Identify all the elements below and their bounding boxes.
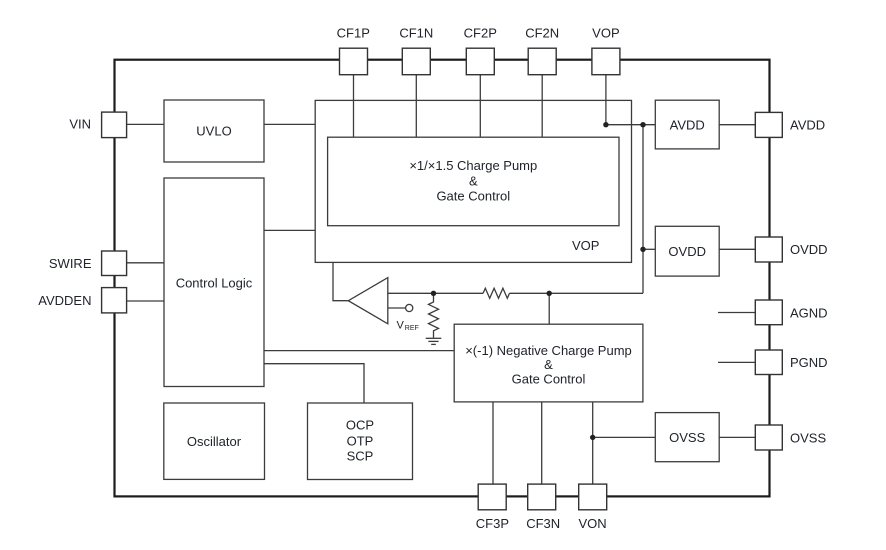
block: x1/x1.5 charge pump outer (VOP domain) <box>315 100 631 262</box>
block: OVDD regulator <box>655 226 719 276</box>
svg-text:AVDDEN: AVDDEN <box>38 293 91 308</box>
svg-text:VON: VON <box>579 516 607 531</box>
svg-text:×1/×1.5 Charge Pump: ×1/×1.5 Charge Pump <box>409 158 537 173</box>
wire: resistor to rail corner <box>510 292 644 294</box>
pin CF3N <box>528 484 556 510</box>
wire: charge pump block to comparator input <box>333 262 348 300</box>
wire: VON stub <box>592 402 594 484</box>
node: rail top junction <box>640 122 645 127</box>
block: Control Logic <box>164 178 264 387</box>
svg-text:Control Logic: Control Logic <box>176 276 253 291</box>
pin AVDDEN <box>102 288 127 313</box>
wire: AVDDEN to Control Logic <box>127 300 164 302</box>
svg-text:OVDD: OVDD <box>668 244 706 259</box>
svg-text:&: & <box>544 357 553 372</box>
wire: VREF input line <box>388 307 406 309</box>
pin SWIRE <box>102 251 127 276</box>
pin AGND <box>755 300 782 325</box>
wire: Control Logic to negative charge pump <box>264 350 454 352</box>
pin PGND <box>755 350 782 375</box>
node: VOP stub junction <box>603 122 608 127</box>
wire: VOP vertical feedback rail <box>642 125 644 294</box>
svg-text:CF2N: CF2N <box>525 26 559 41</box>
pin VOP <box>592 48 620 74</box>
svg-text:V: V <box>397 320 405 332</box>
pin CF2N <box>528 48 556 74</box>
terminal circle: VREF <box>406 304 413 311</box>
node: comparator feedback junction <box>431 291 436 296</box>
pin OVDD <box>755 237 782 262</box>
block: OCP OTP SCP <box>308 403 413 480</box>
node: rail OVDD junction <box>640 247 645 252</box>
svg-text:Gate Control: Gate Control <box>512 372 586 387</box>
pin CF3P <box>478 484 506 510</box>
wire: rail tap to OVDD block <box>643 248 655 250</box>
wire: AGND pin stub <box>718 312 755 314</box>
block U1: x1/x1.5 Charge Pump & Gate Control inner <box>328 137 619 226</box>
pin OVSS <box>755 425 782 450</box>
block: AVDD regulator <box>655 100 719 149</box>
resistor R1 (horizontal) <box>483 288 509 298</box>
block: OVSS regulator <box>655 413 719 462</box>
wire: CF2P stub <box>479 75 481 138</box>
wire: CF3P stub <box>492 402 494 484</box>
block: UVLO <box>164 100 264 162</box>
wire: VIN to UVLO <box>127 123 164 125</box>
svg-text:CF1N: CF1N <box>399 26 433 41</box>
svg-text:CF3P: CF3P <box>476 516 509 531</box>
chip outer boundary <box>115 60 770 497</box>
svg-text:PGND: PGND <box>790 355 828 370</box>
wire: VON node to OVSS block <box>593 436 656 438</box>
ground <box>426 338 442 344</box>
pin CF1N <box>402 48 430 74</box>
svg-text:VIN: VIN <box>69 117 91 132</box>
svg-text:×(-1) Negative Charge Pump: ×(-1) Negative Charge Pump <box>465 343 632 358</box>
wire: CF1P stub <box>353 75 355 138</box>
wire: OVDD block to OVDD pin <box>719 248 755 250</box>
svg-text:OVSS: OVSS <box>669 430 705 445</box>
svg-text:Gate Control: Gate Control <box>436 189 510 204</box>
wire: Control Logic to OCP/OTP/SCP <box>264 364 364 403</box>
svg-text:AGND: AGND <box>790 305 828 320</box>
svg-text:SCP: SCP <box>347 449 374 464</box>
svg-text:UVLO: UVLO <box>196 124 231 139</box>
wire: comparator output to feedback node <box>388 292 483 294</box>
wire: PGND pin stub <box>718 361 755 363</box>
wire: UVLO to charge pump block <box>264 123 315 125</box>
wire: VOP node to AVDD block <box>606 124 655 126</box>
svg-text:AVDD: AVDD <box>790 117 825 132</box>
block: Oscillator <box>164 403 265 479</box>
pin VIN <box>102 112 127 138</box>
svg-text:CF3N: CF3N <box>526 516 560 531</box>
wire: Control Logic to charge pump block <box>264 229 315 231</box>
wire: VOP stub <box>605 75 607 125</box>
node: negative pump feed junction <box>547 291 552 296</box>
node: VON-OVSS junction <box>590 435 595 440</box>
pin AVDD <box>755 112 782 137</box>
wire: CF1N stub <box>415 75 417 138</box>
resistor R2 (vertical) <box>429 293 439 337</box>
svg-text:SWIRE: SWIRE <box>49 256 92 271</box>
svg-text:OTP: OTP <box>347 433 374 448</box>
pin CF2P <box>466 48 494 74</box>
svg-text:VOP: VOP <box>572 238 599 253</box>
svg-text:REF: REF <box>405 325 419 332</box>
pin VON <box>579 484 607 510</box>
pin CF1P <box>340 48 368 74</box>
svg-text:AVDD: AVDD <box>670 117 705 132</box>
wire: OVSS block to OVSS pin <box>719 436 755 438</box>
block U2: x(-1) Negative Charge Pump & Gate Control <box>454 324 643 402</box>
wire: SWIRE to Control Logic <box>127 262 164 264</box>
svg-text:CF1P: CF1P <box>337 26 370 41</box>
svg-text:OVDD: OVDD <box>790 242 828 257</box>
op-amp U3: comparator <box>348 278 388 324</box>
svg-text:&: & <box>469 173 478 188</box>
wire: AVDD block to AVDD pin <box>719 124 755 126</box>
svg-text:OVSS: OVSS <box>790 430 826 445</box>
svg-text:Oscillator: Oscillator <box>187 434 242 449</box>
wire: node to negative charge pump top <box>548 293 550 324</box>
svg-text:OCP: OCP <box>346 418 374 433</box>
svg-text:CF2P: CF2P <box>464 26 497 41</box>
wire: CF3N stub <box>541 402 543 484</box>
svg-text:VOP: VOP <box>592 26 619 41</box>
wire: CF2N stub <box>541 75 543 138</box>
